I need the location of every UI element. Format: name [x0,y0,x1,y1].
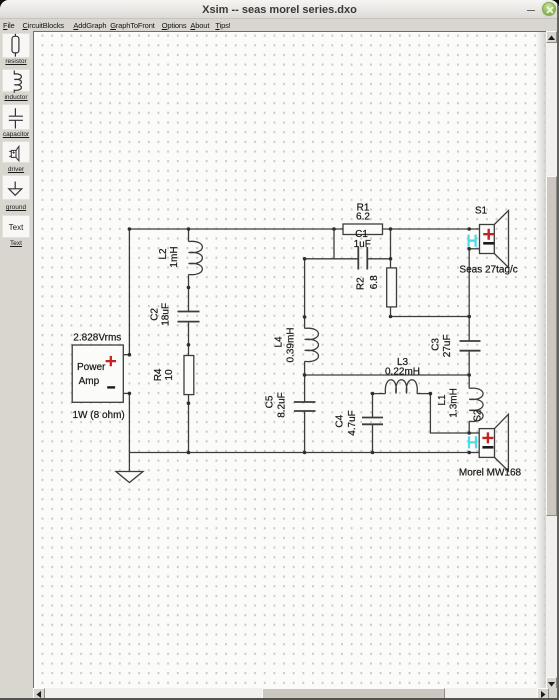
toolbar resistor icon [12,34,19,57]
node S1- riser mid [467,315,471,319]
svg-text:C4: C4 [335,414,346,427]
driver S2 polarity marks [469,432,493,448]
node L4 bottom [303,373,307,377]
node C5 ground [303,451,307,455]
wire amp- down to ground rail [128,393,130,452]
amp polarity marks [106,356,116,388]
driver S2 body [479,429,494,458]
node L3 left [371,392,375,396]
inductor L1 [469,388,483,421]
svg-text:C3: C3 [431,338,442,351]
label R1 value [356,203,370,223]
svg-text:0.39mH: 0.39mH [286,327,297,362]
driver S2 cone [495,414,509,471]
inductor L2 [189,241,203,274]
wire R2 bottom to S1- riser [391,316,470,318]
svg-text:18uF: 18uF [161,303,172,326]
node amp+ stub [128,353,132,357]
svg-text:1uF: 1uF [354,239,371,250]
wire S2 terminal stubs [469,432,479,434]
label L3 value [385,357,420,378]
svg-text:0.22mH: 0.22mH [385,367,420,378]
node R1C1 left top [332,227,336,231]
svg-text:10: 10 [164,369,175,381]
node L2 top [187,227,191,231]
wire bottom ground rail [129,452,469,454]
node C1 row right [389,257,393,261]
wire S1 terminal stubs [469,228,479,230]
inductor L4 [305,328,319,361]
wire L3 leads [373,393,386,395]
svg-text:L2: L2 [158,248,169,260]
wire L2 branch segments [188,229,190,242]
label R2 value rotated [356,275,381,290]
node R1C1 right top [389,227,393,231]
svg-text:R4: R4 [153,368,164,381]
driver S1 polarity marks [469,229,495,247]
toolbar ground icon [9,182,22,196]
svg-text:L4: L4 [274,336,285,348]
node L3 right corner [429,392,433,396]
node R2 bottom [389,315,393,319]
label C1 value [354,229,371,250]
node C3 bottom rail [467,373,471,377]
capacitor C1 plates [358,247,367,270]
node R4 bottom [187,401,191,405]
node C1 row left [303,257,307,261]
node L2 branch ground [187,451,191,455]
wire C4 leads [372,394,374,418]
capacitor C3 plates [460,341,481,351]
svg-text:1.3mH: 1.3mH [449,388,460,417]
wire R1C1 right connector and R2 leads [390,229,392,268]
node L2/C2 [187,286,191,290]
svg-text:1mH: 1mH [169,246,180,267]
label C2 value rotated [150,303,172,326]
toolbar inductor icon [14,71,21,93]
resistor R2 [387,268,397,307]
toolbar driver icon [9,146,19,161]
svg-text:Amp: Amp [79,376,100,387]
node S2+ [467,431,471,435]
svg-text:Morel MW168: Morel MW168 [459,468,522,479]
driver S1 body [480,225,495,254]
label C4 value rotated [335,410,359,436]
node C4 ground [371,451,375,455]
svg-text:C5: C5 [265,395,276,408]
svg-text:8.2uF: 8.2uF [277,392,288,418]
capacitor C4 plates [362,418,383,425]
svg-text:R2: R2 [356,277,367,290]
svg-text:1W (8 ohm): 1W (8 ohm) [73,410,125,421]
driver S1 cone [494,211,508,268]
node S1- [467,247,471,251]
svg-text:2.828Vrms: 2.828Vrms [73,333,121,344]
resistor R1 [343,224,383,235]
svg-text:6.2: 6.2 [356,212,370,223]
node S2- ground [467,451,471,455]
svg-text:C2: C2 [150,308,161,321]
svg-text:S2: S2 [473,409,484,422]
ground [116,453,143,483]
label C5 value rotated [265,392,288,418]
wire R1C1 left connector [333,229,335,259]
toolbar capacitor icon [9,108,23,128]
node C2/R4 [187,343,191,347]
label R4 value rotated [153,368,175,381]
svg-text:L1: L1 [437,394,448,406]
capacitor C2 plates [178,312,200,322]
resistor R4 [184,356,194,395]
svg-text:27uF: 27uF [442,334,453,357]
node amp- stub [128,392,132,396]
node S1+ [467,227,471,231]
wire L4 branch [304,259,306,329]
label L1 value rotated [437,388,459,417]
capacitor C5 plates [294,402,316,411]
label L4 value rotated [274,327,297,362]
node amp+ top corner [128,227,132,231]
wire mid rail L4 bottom to C3 bottom [305,374,470,376]
wire amp- stub [123,392,129,394]
svg-text:S1: S1 [475,206,488,217]
inductor L3 [385,380,417,394]
power amp U1 box [72,345,123,402]
svg-text:4.7uF: 4.7uF [347,410,358,436]
label C3 value rotated [431,334,453,357]
node L4 top pin [303,315,307,319]
wire top rail net from amp+ to S1+ [129,229,469,355]
svg-text:6.8: 6.8 [369,275,380,289]
wire C1 row [305,258,359,260]
wire L3 right down and over to S2+ [430,394,469,433]
wire S1- down through C3 and L1 to S2+ [468,249,470,341]
wire amp+ stub [123,354,129,356]
svg-text:Power: Power [77,362,106,373]
label L2 value rotated [158,246,180,267]
svg-text:Seas 27tag/c: Seas 27tag/c [459,264,517,275]
